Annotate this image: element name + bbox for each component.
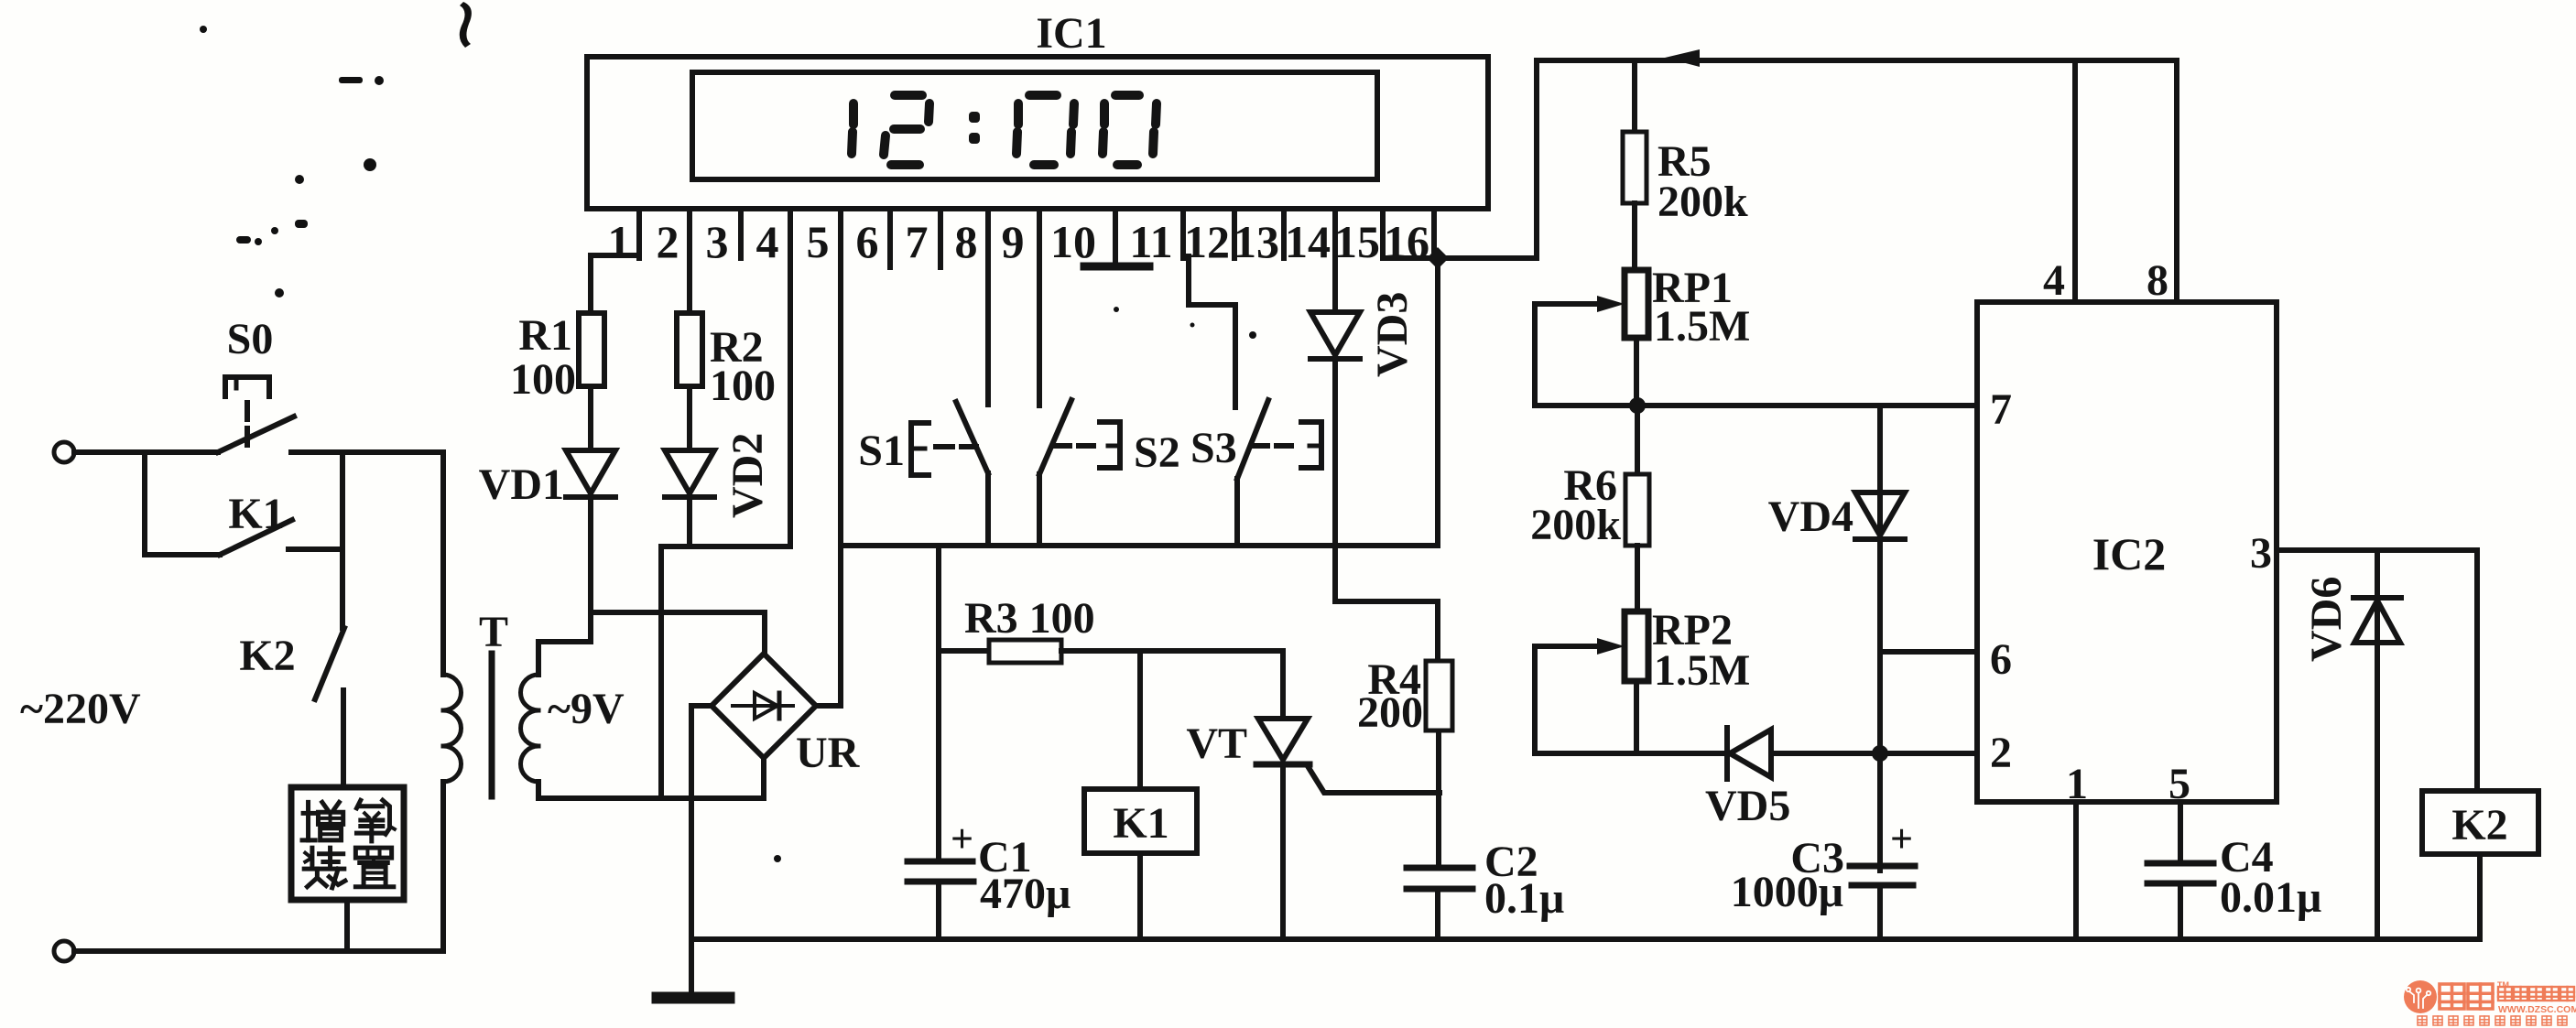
wire pin4 down <box>788 258 793 546</box>
wire IC2 pin4 riser <box>2072 60 2078 302</box>
wire C4 to rail <box>2178 883 2183 939</box>
svg-text:11: 11 <box>1129 216 1172 267</box>
wire VD4 branch <box>1877 406 1883 871</box>
wire VD1 to transformer node <box>588 497 593 642</box>
wire AC common drop to secondary bottom <box>658 546 664 798</box>
svg-text:IC1: IC1 <box>1036 9 1106 58</box>
diode VD4 <box>1855 492 1905 536</box>
wire ground drop <box>689 706 694 993</box>
svg-text:7: 7 <box>1990 385 2012 434</box>
watermark logo <box>2404 980 2576 1025</box>
wire K2 lower lead <box>341 690 346 787</box>
wire neutral <box>74 948 443 954</box>
RP2 wiper arrow <box>1535 644 1604 649</box>
IC1 display digits 12:00 <box>852 95 1157 165</box>
wire R4 to C2 <box>1436 730 1441 868</box>
svg-text:4: 4 <box>756 216 779 267</box>
svg-text:VD6: VD6 <box>2302 577 2351 662</box>
wire VD5 to IC2 pin2 <box>1773 751 1977 756</box>
svg-text:VD2: VD2 <box>723 433 772 518</box>
svg-text:IC2: IC2 <box>2092 528 2167 579</box>
wire R6 to RP2 <box>1635 546 1640 611</box>
wire bridge bottom to secondary <box>761 758 766 798</box>
S0 link dashes <box>245 403 250 419</box>
op-amp/timer IC2 box <box>1977 302 2277 802</box>
switch S1 <box>956 402 988 473</box>
svg-text:~9V: ~9V <box>548 685 625 733</box>
wire C1 to rail <box>936 882 941 939</box>
wire RP2 wiper tie <box>1532 646 1538 753</box>
wire R3 to VT anode node <box>1061 648 1283 654</box>
capacitor C1 <box>908 859 973 865</box>
wire bottom common rail <box>691 936 2480 942</box>
capacitor C4 <box>2147 860 2213 867</box>
svg-text:VD3: VD3 <box>1368 292 1417 377</box>
RP1 wiper arrow <box>1535 301 1604 307</box>
svg-text:4: 4 <box>2043 256 2065 305</box>
svg-text:+: + <box>951 817 973 861</box>
svg-text:K2: K2 <box>239 632 295 680</box>
resistor R2 <box>677 313 702 386</box>
svg-text:S1: S1 <box>858 427 905 475</box>
S1 link dashes <box>936 444 952 449</box>
wire live to S0 <box>74 449 218 455</box>
pin16 tie bar <box>1383 255 1434 261</box>
wire IC2 pin6 tie <box>1880 649 1977 655</box>
wire S0 to transformer <box>291 449 443 455</box>
wire node down to +9V line <box>1435 258 1440 546</box>
wire bridge left to ground drop <box>691 703 712 709</box>
wire R5 to RP1 <box>1632 203 1637 270</box>
wire pin12 jog to S3 <box>1189 256 1235 407</box>
svg-text:7: 7 <box>906 216 929 267</box>
svg-text:14: 14 <box>1285 216 1331 267</box>
svg-text:100: 100 <box>510 355 576 404</box>
S3 link dashes <box>1253 443 1267 449</box>
svg-text:470μ: 470μ <box>980 870 1071 918</box>
resistor R4 <box>1426 661 1452 730</box>
oxygenator device box <box>291 787 404 900</box>
svg-text:1.5M: 1.5M <box>1654 302 1750 351</box>
wire primary to neutral <box>440 782 446 951</box>
AC input terminal top <box>54 442 74 462</box>
wire K2 coil to rail <box>2477 854 2483 939</box>
relay coil K2 box <box>2422 791 2538 854</box>
diode VD6 <box>2353 595 2401 601</box>
svg-text:10: 10 <box>1050 216 1096 267</box>
wire +9V DC line <box>841 543 1438 548</box>
resistor R3 <box>989 640 1061 663</box>
wire VD6 branch <box>2375 550 2380 939</box>
svg-text:1: 1 <box>608 216 631 267</box>
svg-text:200k: 200k <box>1658 178 1748 226</box>
wire node to rail riser <box>1438 255 1537 261</box>
oxygenator label 增氧装置 (drawn strokes) <box>302 800 395 888</box>
wire pin5 to bridge + output <box>838 267 843 706</box>
wire pin15 down <box>1332 258 1338 312</box>
S3 fixed bracket <box>1301 422 1321 468</box>
svg-text:100: 100 <box>710 362 776 410</box>
wire +9V to C1 and R3 <box>936 546 941 861</box>
transformer secondary winding <box>521 675 539 710</box>
wire IC2 pin5 to C4 <box>2178 802 2183 863</box>
wire bridge right to +9V riser <box>816 703 841 709</box>
wire RP1 to node <box>1634 338 1639 406</box>
wire K1 coil to rail <box>1137 853 1143 939</box>
rail artifact arrow <box>1665 49 1700 67</box>
svg-text:0.01μ: 0.01μ <box>2220 873 2321 922</box>
svg-text:2: 2 <box>657 216 679 267</box>
svg-text:3: 3 <box>2250 529 2272 578</box>
svg-text:+: + <box>1890 817 1913 861</box>
svg-text:2: 2 <box>1990 729 2012 777</box>
diode VD2 <box>665 450 714 493</box>
resistor R1 <box>579 313 604 386</box>
diode VD1 <box>566 450 615 493</box>
svg-text:R1: R1 <box>518 311 572 360</box>
svg-text:K1: K1 <box>1113 799 1168 848</box>
svg-text:8: 8 <box>2147 256 2168 305</box>
wire divider node to IC2 pin7 <box>1535 403 1977 408</box>
wire box to neutral <box>344 900 350 951</box>
wire K1 branch left drop <box>142 452 147 555</box>
svg-text:200k: 200k <box>1530 501 1621 549</box>
wire VD3 jog to R4 <box>1335 601 1438 656</box>
S0 fixed bracket <box>225 377 269 396</box>
wire VT gate <box>1308 766 1440 793</box>
AC input terminal bottom <box>54 941 74 961</box>
wire C3 to rail <box>1877 885 1883 939</box>
svg-text:K1: K1 <box>228 490 284 538</box>
potentiometer RP2 <box>1625 611 1648 681</box>
svg-text:6: 6 <box>1990 635 2012 684</box>
wire to R3 <box>939 648 989 654</box>
wire pin2 to R2 <box>687 256 692 313</box>
svg-text:S0: S0 <box>227 315 274 363</box>
svg-text:13: 13 <box>1234 216 1279 267</box>
svg-text:5: 5 <box>807 216 830 267</box>
IC1 pin numbers 1-16 <box>608 216 1430 267</box>
wire IC2 pin1 to rail <box>2073 802 2079 939</box>
svg-text:VD1: VD1 <box>479 460 564 509</box>
ground symbol <box>658 992 729 1004</box>
wire secondary bottom lead <box>538 782 764 798</box>
wire lower line to VD5 <box>1535 751 1725 756</box>
wire IC2 pin3 out <box>2277 550 2477 791</box>
svg-text:1.5M: 1.5M <box>1654 646 1750 695</box>
diode VD3 <box>1310 312 1360 355</box>
svg-text:200: 200 <box>1357 688 1423 737</box>
S1 fixed bracket <box>911 423 929 475</box>
svg-text:VD5: VD5 <box>1705 782 1790 830</box>
IC1 internal ground bar <box>1113 258 1118 265</box>
svg-text:8: 8 <box>955 216 978 267</box>
svg-text:6: 6 <box>856 216 879 267</box>
transformer core <box>489 654 495 796</box>
wire RP2 bottom to line <box>1634 681 1639 753</box>
wire pin8 to S1 <box>985 267 991 405</box>
svg-text:S3: S3 <box>1190 424 1237 472</box>
wire K1 right side <box>288 546 342 552</box>
wire C2 to rail <box>1435 889 1440 939</box>
wire RP1 wiper tie <box>1532 304 1538 406</box>
IC1 clock module outer box <box>587 57 1488 209</box>
wire VD2 to AC common <box>687 497 692 546</box>
wire riser to top rail <box>1534 60 1539 258</box>
svg-text:~220V: ~220V <box>20 685 141 733</box>
bridge rectifier UR <box>712 654 816 758</box>
svg-text:0.1μ: 0.1μ <box>1484 874 1564 923</box>
svg-text:1000μ: 1000μ <box>1731 868 1843 916</box>
wire VT anode <box>1280 651 1286 719</box>
wire R2 to VD2 <box>687 386 692 450</box>
S2 fixed bracket <box>1100 422 1120 468</box>
node RP1/R6 junction <box>1629 397 1646 414</box>
svg-text:S2: S2 <box>1134 428 1180 477</box>
contact K1 blade <box>220 520 292 555</box>
svg-text:T: T <box>479 608 508 656</box>
wire pin1 jog to R1 <box>591 255 639 256</box>
wire pin9 to S2 <box>1037 267 1042 406</box>
wire node to bridge top <box>591 612 765 654</box>
svg-text:WWW.DZSC.COM: WWW.DZSC.COM <box>2498 1004 2576 1015</box>
transformer T primary winding <box>443 675 462 710</box>
resistor R5 <box>1623 132 1647 203</box>
svg-text:UR: UR <box>796 729 861 777</box>
IC1 display window <box>692 72 1377 179</box>
svg-text:15: 15 <box>1334 216 1380 267</box>
svg-text:VT: VT <box>1186 720 1247 768</box>
wire node to R6 <box>1635 406 1640 474</box>
IC1 pin leads 1-16 <box>639 209 1434 267</box>
wire live down to primary <box>440 452 446 675</box>
wire secondary top lead <box>538 642 591 675</box>
switch S3 <box>1237 400 1268 479</box>
wire VT cathode to rail <box>1280 764 1286 939</box>
wire rail to R5 <box>1632 60 1637 132</box>
wire top supply rail <box>1537 58 2177 63</box>
wire IC2 pin8 riser <box>2174 60 2179 302</box>
wire VD3 down across to jog <box>1332 359 1338 601</box>
resistor R6 <box>1625 474 1649 546</box>
S2 link dashes <box>1055 443 1070 449</box>
svg-text:VD4: VD4 <box>1768 492 1853 541</box>
UR inner diode <box>733 704 793 708</box>
wire K1 coil riser <box>1137 651 1143 789</box>
wire R1 to VD1 <box>588 386 593 450</box>
relay coil K1 box <box>1084 789 1197 853</box>
diode VD5 <box>1724 728 1730 779</box>
capacitor C3 <box>1850 863 1915 870</box>
potentiometer RP1 <box>1625 270 1648 338</box>
svg-text:9: 9 <box>1002 216 1025 267</box>
switch S2 <box>1039 400 1071 474</box>
wire K2 branch upper lead <box>340 549 345 628</box>
wire AC common line <box>661 544 790 549</box>
svg-text:K2: K2 <box>2451 801 2507 849</box>
thyristor VT <box>1258 719 1308 760</box>
node pin16 junction <box>1427 247 1449 269</box>
contact K2 blade <box>315 628 344 699</box>
node VD4 junction <box>1872 745 1888 762</box>
switch S0 blade <box>218 417 294 452</box>
svg-text:3: 3 <box>706 216 729 267</box>
scan noise specks <box>200 2 2011 862</box>
svg-text:R3 100: R3 100 <box>964 594 1095 643</box>
capacitor C2 <box>1407 865 1473 871</box>
